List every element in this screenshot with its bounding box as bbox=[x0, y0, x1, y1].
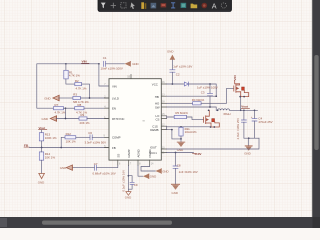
wire GND to R9 bbox=[56, 118, 79, 120]
svg-text:GND: GND bbox=[167, 50, 173, 54]
ground GND (RT row) bbox=[42, 116, 57, 122]
wire Vout stem bbox=[41, 130, 43, 133]
pin stubs bottom bbox=[118, 160, 150, 165]
wire R7 to R8 bbox=[64, 107, 75, 109]
svg-text:FB: FB bbox=[112, 146, 116, 150]
ground GND (AGND) bbox=[143, 174, 156, 179]
svg-text:3.3nF ±10% 50V: 3.3nF ±10% 50V bbox=[85, 140, 107, 144]
svg-text:R3: R3 bbox=[73, 93, 77, 97]
wire top rail VIN bbox=[37, 63, 99, 65]
wire EN to RT vertical bbox=[65, 108, 67, 118]
svg-text:Vout: Vout bbox=[39, 126, 46, 130]
svg-text:68uH: 68uH bbox=[224, 112, 231, 116]
wire R14 top bbox=[41, 148, 43, 152]
pin stubs left bbox=[105, 98, 110, 148]
ground GND (C9) bbox=[125, 192, 131, 200]
icon red tool bbox=[161, 3, 167, 7]
svg-text:GND: GND bbox=[177, 148, 183, 152]
svg-text:GND: GND bbox=[244, 152, 250, 156]
wire R9 to RT pin bbox=[87, 118, 109, 120]
wire C7 to GND bbox=[72, 167, 94, 169]
capacitor C7 bbox=[94, 165, 96, 170]
capacitor C9 column bbox=[127, 165, 129, 191]
wire LO/CS bracket to R5 bbox=[167, 116, 175, 119]
svg-text:R7: R7 bbox=[55, 103, 59, 107]
svg-text:C1: C1 bbox=[103, 56, 107, 60]
icon dashed square bbox=[121, 3, 126, 8]
svg-text:LVLD: LVLD bbox=[112, 96, 119, 100]
svg-text:1uF ±10% 16V: 1uF ±10% 16V bbox=[173, 64, 192, 68]
capacitor C4 electrolytic bbox=[254, 110, 256, 118]
icon crosshair bbox=[111, 3, 116, 8]
capacitor C1 bbox=[103, 61, 105, 66]
wire R14 to GND bbox=[41, 160, 43, 173]
svg-text:GND: GND bbox=[172, 191, 178, 195]
svg-text:COMP: COMP bbox=[112, 136, 121, 140]
svg-text:GND: GND bbox=[42, 117, 48, 121]
resistor R5 bbox=[174, 115, 186, 118]
svg-text:IOUT: IOUT bbox=[150, 146, 157, 150]
node junction R1 top bbox=[65, 63, 67, 65]
inductor L1 bbox=[218, 109, 230, 110]
capacitor C2 bbox=[170, 70, 175, 72]
icon yellow book bbox=[141, 2, 144, 9]
wire R4 to Q1 gate bbox=[201, 88, 234, 103]
ground GND below R14 bbox=[38, 173, 45, 184]
svg-text:GND: GND bbox=[150, 175, 156, 179]
ground GND (C8) bbox=[171, 184, 179, 195]
capacitor C8 column bbox=[175, 153, 177, 166]
icon dark red ball bbox=[202, 3, 208, 9]
wire left rail bbox=[37, 64, 54, 108]
wire VCC1 row bbox=[167, 152, 194, 154]
svg-text:VCC: VCC bbox=[152, 82, 158, 86]
wire SS to C7 bbox=[96, 165, 117, 167]
svg-text:C3: C3 bbox=[201, 91, 205, 95]
svg-text:R2: R2 bbox=[75, 79, 79, 83]
svg-text:R9: R9 bbox=[81, 113, 85, 117]
icon filter bbox=[101, 3, 106, 9]
svg-text:C2: C2 bbox=[176, 73, 180, 77]
svg-text:100K 1%: 100K 1% bbox=[45, 136, 57, 140]
wire PGND to GND bbox=[141, 165, 155, 171]
svg-text:GND: GND bbox=[125, 195, 131, 199]
node Q2 source junctions bbox=[210, 126, 212, 128]
svg-text:0.1uF ±10% 16V: 0.1uF ±10% 16V bbox=[122, 170, 126, 192]
capacitor C6 bbox=[90, 135, 92, 140]
svg-text:HB: HB bbox=[155, 95, 159, 99]
icon yellow folder bbox=[191, 4, 198, 9]
svg-text:SS: SS bbox=[117, 154, 121, 158]
resistor R2 bbox=[75, 83, 82, 86]
resistor R11 bbox=[179, 127, 183, 136]
svg-text:10mΩ1%: 10mΩ1% bbox=[185, 130, 197, 134]
svg-text:R8: R8 bbox=[78, 103, 82, 107]
ground GND (C1) bbox=[125, 61, 139, 66]
ground GND (R11) bbox=[177, 142, 185, 152]
wire C1 to GND bbox=[106, 63, 125, 65]
svg-text:4.7K 1%: 4.7K 1% bbox=[76, 86, 87, 90]
wire IOUT row long bbox=[167, 138, 260, 149]
svg-text:CS: CS bbox=[156, 118, 160, 122]
svg-text:R4 6Ω1%: R4 6Ω1% bbox=[192, 98, 205, 102]
wire D1 to C3/corner bbox=[189, 84, 216, 96]
node SW-inductor junction bbox=[217, 109, 219, 111]
capacitor C5 (ceramic out) bbox=[243, 110, 245, 120]
capacitor C3 column bbox=[209, 84, 211, 93]
node LVLD junction bbox=[89, 97, 91, 99]
node Q1 source junctions bbox=[239, 96, 241, 98]
svg-text:1nF ±10% 16V: 1nF ±10% 16V bbox=[179, 170, 198, 174]
wire DEMB arm bbox=[167, 130, 181, 139]
wire VIN to C1 bbox=[99, 64, 109, 86]
icon cursor bbox=[130, 2, 135, 9]
svg-text:VIN: VIN bbox=[82, 60, 88, 64]
resistor R14 bbox=[39, 152, 43, 160]
svg-text:GND: GND bbox=[162, 169, 168, 173]
svg-text:4.7uF ±10% 25V: 4.7uF ±10% 25V bbox=[236, 118, 240, 140]
wire C6 to COMP pin bbox=[92, 136, 109, 138]
svg-text:VIN: VIN bbox=[233, 75, 237, 81]
bottom scrollbar bbox=[0, 217, 320, 228]
wire R1 to R2 bbox=[66, 79, 75, 84]
svg-text:4.7K 1%: 4.7K 1% bbox=[69, 74, 80, 78]
svg-text:10nF ±10% 100V: 10nF ±10% 100V bbox=[101, 67, 123, 71]
svg-text:10K 1%: 10K 1% bbox=[45, 155, 56, 159]
svg-text:DEMB: DEMB bbox=[150, 128, 158, 132]
svg-text:VIN: VIN bbox=[112, 84, 117, 88]
wire R3 to LVLD pin bbox=[80, 97, 109, 99]
svg-text:10K 1%: 10K 1% bbox=[66, 140, 77, 144]
icon dashed circle bbox=[221, 3, 226, 8]
wire R1 stem bbox=[65, 64, 67, 71]
wire R13 to FB row bbox=[41, 141, 43, 148]
wire R5 to Q2 gate bbox=[187, 117, 204, 120]
resistor R3 bbox=[73, 96, 81, 99]
wire R12 to C6 bbox=[76, 136, 90, 138]
wire HO to R4 bbox=[167, 102, 193, 104]
svg-text:470uF 25V: 470uF 25V bbox=[258, 120, 272, 124]
transistor Q1 bbox=[234, 84, 249, 97]
op-amp U1 body bbox=[109, 79, 161, 160]
wire AGND to GND bbox=[138, 165, 143, 176]
svg-text:RAMP: RAMP bbox=[127, 149, 131, 157]
svg-text:4.7K 1%: 4.7K 1% bbox=[55, 111, 66, 115]
svg-text:A: A bbox=[212, 1, 217, 10]
svg-text:SW: SW bbox=[155, 106, 160, 110]
wire R2 to LVLD junction bbox=[82, 84, 90, 98]
wire output bottom rail bbox=[244, 137, 259, 139]
wire to GND bbox=[248, 138, 250, 146]
resistor R12 bbox=[65, 136, 76, 139]
svg-text:RT/SYNC: RT/SYNC bbox=[112, 117, 124, 121]
svg-text:1B: 1B bbox=[127, 77, 130, 79]
resistor R13 bbox=[39, 133, 43, 141]
resistor R8 bbox=[75, 107, 84, 110]
right scrollbar bbox=[311, 0, 313, 228]
ground GND (output) bbox=[244, 146, 252, 156]
ground GND (LVLD row) bbox=[44, 95, 59, 101]
ground GND (C7) bbox=[60, 165, 73, 170]
svg-text:+10V: +10V bbox=[194, 152, 202, 156]
wire R8 to EN pin bbox=[84, 107, 109, 109]
svg-text:C6: C6 bbox=[88, 131, 92, 135]
ground GND above C2 bbox=[167, 50, 175, 60]
wire inductor to output bbox=[230, 109, 258, 111]
svg-text:C9: C9 bbox=[134, 183, 138, 187]
wire comp tee bbox=[61, 137, 65, 147]
wire GND to C2 bbox=[171, 60, 173, 70]
grid minor bbox=[0, 0, 1, 1]
icon teal square bbox=[181, 3, 187, 8]
icon blue-gray bbox=[151, 3, 157, 9]
svg-text:20K 1%: 20K 1% bbox=[80, 121, 91, 125]
svg-text:PGND: PGND bbox=[148, 149, 152, 157]
pin stubs right bbox=[161, 84, 166, 153]
resistor R7 bbox=[54, 107, 64, 110]
svg-text:GND: GND bbox=[38, 181, 44, 185]
wire C1S row to R11/Q2 bbox=[167, 126, 211, 129]
wire Q1 source down bbox=[240, 97, 242, 111]
svg-text:R12: R12 bbox=[66, 132, 72, 136]
icon blue I bbox=[171, 3, 175, 8]
node EN mid junction bbox=[65, 107, 67, 109]
svg-text:R5 6Ω1%: R5 6Ω1% bbox=[175, 111, 188, 115]
wire FB row bbox=[30, 147, 110, 149]
wire VCC row bbox=[167, 83, 184, 85]
svg-text:AGND: AGND bbox=[136, 149, 140, 157]
svg-text:C8: C8 bbox=[177, 163, 181, 167]
diode D1 bbox=[184, 82, 188, 86]
wire SW row bbox=[167, 107, 218, 110]
resistor R4 bbox=[193, 102, 202, 105]
resistor R9 bbox=[79, 117, 87, 120]
svg-text:GND: GND bbox=[60, 166, 66, 170]
svg-text:C7: C7 bbox=[94, 162, 98, 166]
transistor Q2 bbox=[204, 110, 220, 127]
ground GND (PGND) bbox=[155, 169, 168, 174]
wire HB row bbox=[167, 95, 217, 97]
svg-text:1uF ±10% 100V: 1uF ±10% 100V bbox=[197, 86, 218, 90]
svg-text:0.68uF ±10% 16V: 0.68uF ±10% 16V bbox=[93, 171, 116, 175]
svg-text:GND: GND bbox=[44, 96, 50, 100]
resistor R1 bbox=[64, 70, 68, 79]
svg-text:GND: GND bbox=[132, 62, 138, 66]
svg-text:+: + bbox=[251, 115, 253, 119]
svg-text:EN: EN bbox=[112, 107, 116, 111]
wire GND to R3 bbox=[59, 97, 73, 99]
wire R11 to GND bbox=[180, 139, 182, 142]
